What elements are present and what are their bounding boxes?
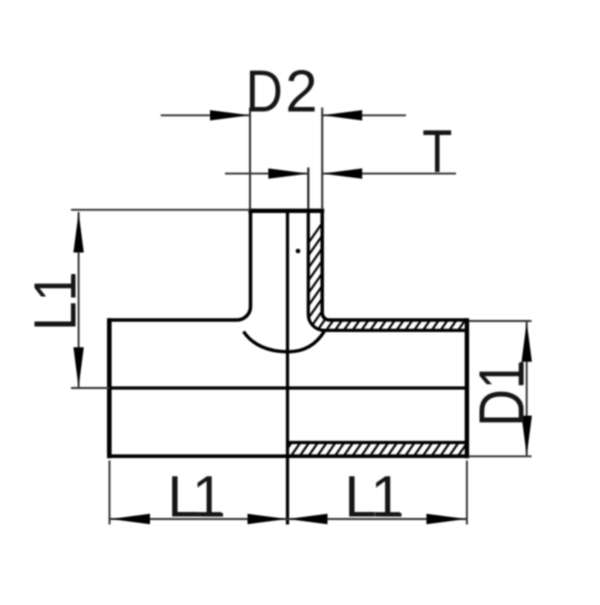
L1 left extension line (top) — [71, 209, 250, 211]
branch top edge — [248, 209, 324, 213]
D1 arrow up — [522, 322, 532, 362]
label L1 bottom-right digit serif — [381, 513, 402, 517]
L1 left dimension line — [78, 212, 80, 388]
horizontal centerline of pipe — [109, 386, 467, 389]
horizontal centerline extension (left, for L1 dim) — [71, 387, 109, 389]
T dimension line — [225, 173, 456, 175]
D1 arrow down — [522, 416, 532, 456]
svg-text:D1: D1 — [466, 360, 537, 426]
pipe outline: top-left surface + fillet + branch left wall — [108, 211, 251, 320]
hatch band: pipe bottom wall (section) — [288, 443, 469, 457]
D2 arrow left — [210, 110, 250, 120]
T arrow left — [268, 168, 308, 178]
svg-text:L1: L1 — [21, 272, 88, 330]
L1 bottom extension line right — [466, 461, 468, 525]
T extension tick (inner wall) — [307, 168, 309, 210]
L1 bottom-left arrow (left end) — [110, 514, 150, 524]
pipe outline: bottom surface — [108, 454, 469, 458]
hatch band: branch right wall + pipe top-right wall (section) — [308, 220, 468, 331]
D1 extension line top — [469, 320, 532, 322]
L1 bottom extension line left — [109, 461, 111, 525]
svg-text:D: D — [246, 58, 283, 124]
pipe inner bottom surface (section half) — [288, 441, 469, 444]
L1 left arrow down — [73, 347, 83, 387]
D1 dimension line — [526, 322, 528, 456]
pipe outline: left end cap — [107, 318, 112, 458]
svg-text:1: 1 — [371, 465, 403, 530]
L1 bottom-left arrow (center, pointing right) — [248, 514, 288, 524]
label D1 digit serif — [520, 362, 524, 384]
svg-text:2: 2 — [285, 59, 317, 125]
L1 bottom dimension line — [110, 518, 467, 520]
svg-text:1: 1 — [192, 465, 224, 530]
branch right inner wall + fillet + pipe inner top surface — [308, 211, 468, 330]
D1 extension line bottom — [469, 455, 532, 457]
label L1 bottom-left digit serif — [202, 513, 223, 517]
vertical centerline of branch — [286, 211, 289, 525]
label L1 left digit serif — [72, 274, 76, 296]
T arrow right — [322, 168, 362, 178]
D2 extension line left — [249, 108, 251, 210]
branch right outer wall + fillet + pipe top-right surface — [322, 211, 468, 320]
small dot mark — [296, 249, 301, 254]
svg-text:T: T — [422, 117, 452, 185]
D2 arrow right — [322, 110, 362, 120]
D2/T extension line right — [321, 108, 323, 210]
L1 bottom-right arrow (right end) — [426, 514, 466, 524]
L1 bottom-right arrow (center, pointing left) — [288, 514, 328, 524]
L1 left arrow up — [73, 213, 83, 253]
saddle (crotch) curve of branch-pipe intersection — [244, 331, 325, 352]
D2 dimension line — [161, 114, 406, 116]
pipe outline: right end cap — [465, 318, 469, 458]
